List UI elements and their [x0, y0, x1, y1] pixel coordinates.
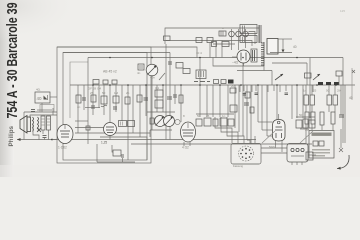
switch contacts right	[318, 82, 339, 85]
wire y110	[37, 109, 52, 111]
wire row to comb	[249, 32, 256, 45]
svg-text:1·Ω62: 1·Ω62	[58, 146, 67, 150]
verticals power area	[306, 124, 341, 148]
mains plug	[287, 144, 316, 163]
wire y112 left	[24, 111, 57, 113]
diagonal routing wires	[262, 131, 313, 143]
small box left of gang	[150, 118, 154, 124]
wire y112	[147, 111, 175, 113]
AF components right mid	[304, 95, 344, 125]
svg-text:1n: 1n	[222, 114, 226, 118]
frame antenna second turn	[63, 53, 147, 161]
IF tube V3 circle	[104, 123, 117, 136]
svg-text:4n: 4n	[77, 105, 81, 109]
svg-text:25: 25	[90, 91, 94, 95]
wire top right	[278, 38, 292, 40]
arrow left end of bus	[17, 138, 21, 141]
wire x150 down	[149, 130, 151, 137]
junction dot	[51, 139, 53, 141]
junction x	[37, 128, 41, 132]
power transformer box	[309, 131, 334, 159]
wire y66	[213, 58, 264, 67]
svg-text:~4Ω: ~4Ω	[232, 61, 239, 65]
components right of V4	[296, 117, 315, 128]
wire PSU columns	[305, 85, 307, 95]
svg-text:1,25: 1,25	[101, 141, 107, 145]
svg-text:2M: 2M	[337, 89, 342, 93]
svg-text:754 A - 30 Barcarole 39: 754 A - 30 Barcarole 39	[4, 3, 21, 119]
svg-text:Philips: Philips	[9, 125, 15, 146]
vertical wire x97	[96, 144, 98, 162]
svg-text:25: 25	[313, 89, 317, 93]
wave label dashes	[194, 81, 210, 83]
IF transformer T2 boxes	[119, 121, 135, 127]
output transformer windings	[33, 117, 39, 131]
wire speaker top	[30, 115, 57, 118]
bus y140	[17, 139, 256, 141]
svg-text:50: 50	[326, 89, 330, 93]
second small box on y40	[196, 38, 202, 43]
V4 legs	[275, 141, 277, 148]
svg-text:2M: 2M	[305, 128, 310, 132]
svg-text:4Ω.: 4Ω.	[36, 88, 41, 92]
series capacitor on lead	[31, 110, 35, 112]
svg-text:2n: 2n	[126, 91, 130, 95]
junction dots bus y85	[92, 84, 337, 86]
svg-text:40: 40	[37, 96, 43, 101]
padder capacitor	[138, 64, 144, 70]
detector row components	[196, 114, 234, 126]
wire resistor bottoms	[42, 130, 44, 134]
svg-text:40: 40	[349, 96, 353, 100]
second AVC arrow	[313, 74, 320, 80]
wire y107	[85, 107, 100, 109]
wire y47 frame top	[57, 46, 166, 48]
antenna coupling box 40	[35, 88, 57, 113]
small cap near x170	[168, 62, 172, 64]
vertical wire x88	[87, 58, 89, 145]
tube V2 AB2	[181, 122, 196, 142]
svg-text:DF 28 G4: DF 28 G4	[88, 87, 101, 91]
wire y44	[213, 43, 235, 45]
small cap near x340	[336, 71, 342, 85]
wire y137	[100, 137, 147, 160]
tube V2 legs	[183, 142, 185, 146]
trimmer on y44	[222, 42, 229, 47]
svg-text:50: 50	[197, 114, 201, 118]
left small box on y40	[207, 38, 213, 43]
svg-text:40: 40	[293, 45, 297, 49]
svg-text:4 Ω2: 4 Ω2	[182, 146, 189, 150]
tube socket octal	[231, 144, 261, 165]
staircase wires to socket	[215, 117, 255, 143]
tuning gang capacitors	[155, 116, 175, 127]
oscillator circle with arrow	[146, 64, 158, 76]
wire y129	[300, 128, 309, 130]
svg-text:500: 500	[269, 146, 275, 150]
wire y130 under gang	[150, 129, 172, 131]
magic eye / dial circle	[237, 50, 250, 63]
svg-text:20: 20	[231, 84, 235, 88]
short verticals terminal to bus	[210, 39, 246, 58]
trimmer C-osc box	[164, 36, 171, 41]
svg-text:AB 45 v2: AB 45 v2	[103, 70, 117, 74]
svg-text:50: 50	[102, 91, 106, 95]
AVC arrow	[275, 74, 283, 80]
bus y133	[75, 132, 150, 134]
resistor	[47, 116, 51, 130]
wires winding bottoms	[33, 125, 39, 140]
wire y70	[237, 70, 272, 72]
svg-text:125: 125	[340, 9, 345, 13]
wire y40	[166, 41, 252, 47]
svg-text:40n: 40n	[150, 76, 155, 80]
third gang section	[175, 119, 180, 124]
grid capacitor	[43, 136, 47, 140]
wire y127	[75, 127, 104, 129]
tiny value labels scattered	[77, 26, 342, 132]
IF transformer T1 block	[240, 25, 257, 43]
wire y121 left	[75, 120, 88, 122]
tube V1 AL4	[57, 125, 73, 144]
svg-text:Fassung: Fassung	[233, 164, 244, 168]
svg-text:1n: 1n	[303, 89, 307, 93]
wire y162	[97, 161, 135, 163]
bus top tuner y28	[165, 28, 259, 44]
osc coil box pair	[176, 63, 190, 74]
coupling box lower	[40, 105, 54, 113]
arrow down x283	[282, 39, 285, 53]
winding comb upper	[259, 25, 262, 43]
wire to eye	[232, 56, 237, 58]
wire output stage columns	[257, 85, 259, 122]
main bus y85	[70, 84, 355, 86]
wire y53	[63, 52, 170, 54]
svg-text:10 4: 10 4	[196, 51, 202, 55]
small box left of V3	[86, 126, 90, 130]
upper terminal strip	[219, 29, 248, 39]
wire y46.5	[166, 47, 197, 58]
short stubs below bus y85	[240, 85, 313, 95]
loudspeaker	[20, 116, 31, 134]
main bus y57	[88, 57, 343, 59]
band switch box	[196, 70, 206, 79]
trimmer arrow	[159, 73, 165, 80]
title Philips 754 A-30 Barcarole 39	[4, 3, 21, 147]
mains cord arrow	[337, 148, 349, 170]
tone cap pair right of bus	[272, 58, 311, 86]
capacitor C11 row	[93, 80, 117, 85]
antenna stub right	[352, 70, 355, 73]
trimmer C22	[212, 42, 217, 47]
frame antenna outer turn	[57, 47, 151, 163]
output tube V4	[273, 114, 286, 141]
svg-text:4n: 4n	[137, 71, 141, 75]
wire tube V1 grid	[52, 139, 57, 141]
left verticals in speaker block	[52, 108, 54, 115]
svg-text:25: 25	[206, 114, 210, 118]
svg-text:1M: 1M	[114, 91, 119, 95]
winding right of eye	[251, 49, 257, 62]
wire y52	[270, 52, 292, 54]
plug pins below	[292, 162, 302, 165]
comb bottom wire	[263, 66, 265, 71]
svg-text:50: 50	[299, 113, 303, 117]
AF coupling parts lower middle	[112, 145, 124, 162]
wires socket to plug	[261, 148, 287, 153]
wire x24 down	[23, 112, 25, 140]
eye stub	[243, 63, 245, 66]
frame antenna inner turn top-left	[70, 62, 88, 118]
field coil resistor	[41, 116, 45, 130]
wire oscillator column	[151, 76, 153, 130]
resistor R3 group	[76, 88, 254, 113]
wires into output tube	[258, 122, 273, 136]
svg-text:0,1: 0,1	[155, 86, 160, 90]
bus y144	[131, 143, 312, 145]
winding comb lower	[261, 42, 264, 66]
junction dots bus y57	[109, 57, 298, 59]
coupling box	[267, 39, 278, 55]
wire detector columns	[199, 58, 201, 118]
switch row small boxes	[214, 80, 227, 84]
wire RF grid column	[77, 85, 79, 133]
switch contact block	[228, 80, 234, 84]
